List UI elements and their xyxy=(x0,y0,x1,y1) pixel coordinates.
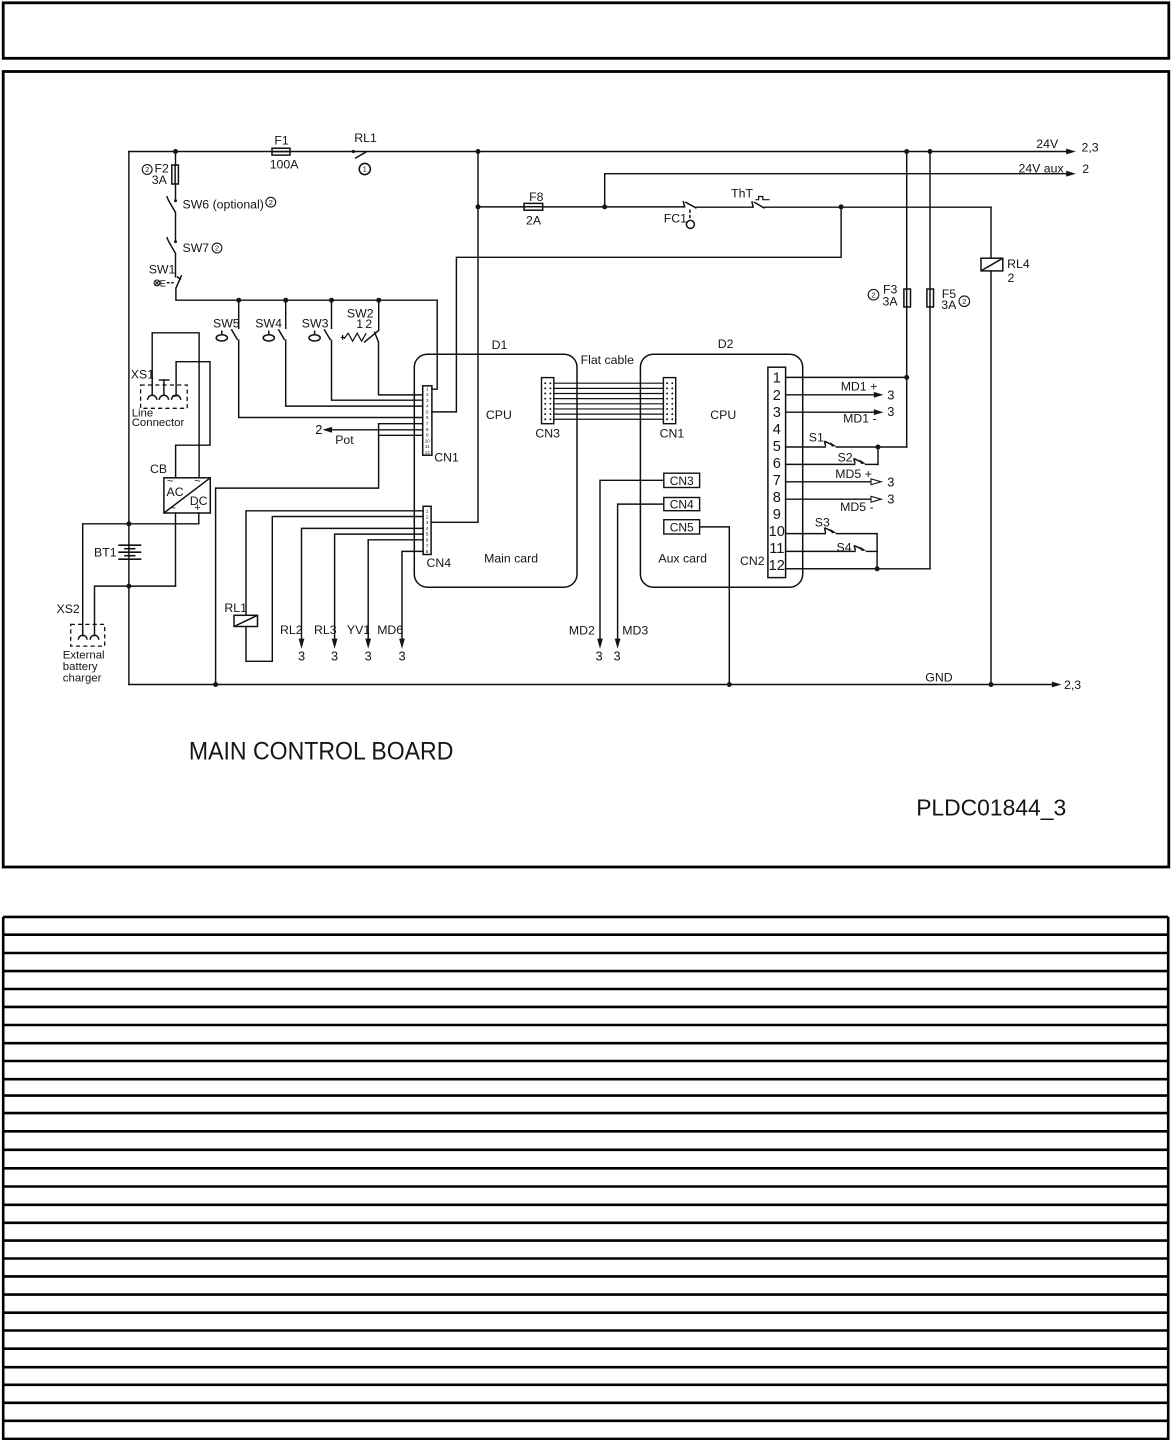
svg-text:11: 11 xyxy=(769,541,784,557)
svg-text:CN1: CN1 xyxy=(660,427,685,441)
svg-text:3: 3 xyxy=(887,492,894,507)
wire: branch down to D1 CN1 pin5 xyxy=(432,207,841,412)
wire: RL4 coil drop xyxy=(990,207,992,258)
wire: SW1 to switch bus xyxy=(176,288,437,300)
relay coil RL1 xyxy=(234,615,258,626)
svg-text:MAIN CONTROL BOARD: MAIN CONTROL BOARD xyxy=(189,739,454,766)
wire: +24V left rail xyxy=(128,152,130,685)
svg-text:ThT: ThT xyxy=(731,186,753,200)
connector CN5 of D2 xyxy=(664,520,700,534)
svg-text:D1: D1 xyxy=(492,338,508,352)
svg-text:MD3: MD3 xyxy=(622,624,648,638)
svg-text:YV1: YV1 xyxy=(347,623,370,637)
wire: bus drop to D1 CN1 pin1 xyxy=(432,300,437,389)
connector XS2 external battery charger xyxy=(71,624,105,646)
svg-text:Pot: Pot xyxy=(335,433,354,447)
wire: 24V top bus xyxy=(129,151,1067,153)
svg-text:3: 3 xyxy=(398,649,405,664)
svg-text:Flat cable: Flat cable xyxy=(581,353,634,367)
svg-text:10: 10 xyxy=(769,524,785,540)
svg-text:BT1: BT1 xyxy=(94,546,117,560)
svg-text:9: 9 xyxy=(426,433,429,438)
svg-text:5: 5 xyxy=(426,409,429,414)
svg-text:3: 3 xyxy=(365,649,372,664)
wire: CN4 pin4 to RL2 xyxy=(302,528,424,639)
svg-text:+: + xyxy=(194,502,200,514)
switch SW6 (optional) xyxy=(174,199,177,202)
connector CN1 of D1, 12 pins xyxy=(423,386,432,455)
svg-text:4: 4 xyxy=(426,526,429,532)
connector CN3 of D1 (flat cable header) xyxy=(542,378,554,424)
svg-text:CN2: CN2 xyxy=(740,554,765,568)
svg-text:5: 5 xyxy=(773,439,781,455)
svg-text:5: 5 xyxy=(426,532,429,538)
svg-text:1: 1 xyxy=(363,165,367,174)
svg-text:SW3: SW3 xyxy=(302,317,329,331)
wire: SW5 drop to CN1 pin6 xyxy=(238,300,240,328)
wire: RL1 coil return to CN4 pin2 xyxy=(246,517,423,662)
svg-text:E: E xyxy=(160,279,166,289)
svg-text:CPU: CPU xyxy=(710,408,736,422)
wire: pin7/9 to GND xyxy=(216,424,379,685)
wire: SW4 drop to CN1 pin4 xyxy=(285,300,287,328)
svg-text:~: ~ xyxy=(167,476,173,488)
label F2 3A xyxy=(142,165,152,175)
switch S2 xyxy=(854,458,855,463)
wire: CB plus to rail and XS2 pin1 xyxy=(83,513,199,636)
connector CN1 of D2 (flat cable header) xyxy=(663,378,675,424)
node: MD5+ open arrow xyxy=(871,479,881,485)
svg-text:3: 3 xyxy=(613,649,620,664)
svg-text:1: 1 xyxy=(773,371,781,387)
svg-text:D2: D2 xyxy=(718,337,734,351)
svg-text:2: 2 xyxy=(773,388,781,404)
node: MD2 arrow xyxy=(597,639,603,649)
svg-text:3A: 3A xyxy=(941,298,957,312)
switch SW5 xyxy=(216,335,227,341)
svg-text:2: 2 xyxy=(426,392,429,397)
svg-text:3: 3 xyxy=(887,387,894,402)
wire: Pot line to CN1 pin8 xyxy=(332,429,423,431)
svg-text:24V: 24V xyxy=(1036,137,1059,151)
wire: D2 CN4 to MD3 xyxy=(618,504,664,639)
svg-text:MD5 +: MD5 + xyxy=(835,467,872,481)
svg-text:RL1: RL1 xyxy=(354,131,377,145)
wire: CN2 pin11 S4 line xyxy=(786,550,855,552)
svg-text:2: 2 xyxy=(215,244,219,253)
svg-text:1: 1 xyxy=(426,509,429,515)
relay coil RL4 xyxy=(981,258,1003,271)
svg-text:2: 2 xyxy=(962,297,966,306)
svg-text:−: − xyxy=(170,502,176,514)
wire: CN2 pin8 MD5- xyxy=(786,498,872,500)
svg-text:9: 9 xyxy=(773,507,781,523)
svg-text:2,3: 2,3 xyxy=(1064,678,1081,692)
svg-text:SW5: SW5 xyxy=(213,317,240,331)
wire: CN2 pin1 to F3 xyxy=(786,376,907,378)
svg-text:2A: 2A xyxy=(526,213,542,227)
fuse F2 3A xyxy=(172,165,179,184)
svg-text:RL4: RL4 xyxy=(1007,257,1030,271)
wire: F5 branch from 24V xyxy=(929,152,931,290)
svg-text:2,3: 2,3 xyxy=(1082,141,1099,155)
wire: FC1 to ThT xyxy=(697,206,754,208)
svg-text:S2: S2 xyxy=(838,451,853,465)
svg-text:3: 3 xyxy=(773,405,781,421)
wire: CB minus to rail and XS2 pin2 xyxy=(175,513,177,586)
wire: CN2 pin10 S3 line xyxy=(786,533,826,535)
svg-text:Main card: Main card xyxy=(484,552,538,566)
svg-text:12: 12 xyxy=(425,450,431,455)
svg-text:charger: charger xyxy=(63,673,102,685)
switch SW2 xyxy=(344,333,366,341)
wire: ThT to RL4 drop xyxy=(765,206,992,208)
svg-text:2: 2 xyxy=(1082,162,1089,176)
svg-text:PLDC01844_3: PLDC01844_3 xyxy=(916,795,1066,821)
svg-text:6: 6 xyxy=(773,456,781,472)
wire: RL4 coil to GND xyxy=(990,271,992,685)
switch SW1 emergency stop xyxy=(154,280,160,286)
svg-text:2: 2 xyxy=(426,514,429,520)
wire: CN4 pin5 to RL3 xyxy=(335,534,424,639)
svg-text:SW7: SW7 xyxy=(183,241,210,255)
connector CN4 of D1, 8 pins xyxy=(423,506,431,554)
svg-text:6: 6 xyxy=(426,415,429,420)
connector XS1 line connector xyxy=(141,385,188,408)
wire: 24V aux line xyxy=(605,174,1067,207)
wire: S2 branch xyxy=(877,447,879,464)
wire: SW2 drop to CN1 pin2 xyxy=(378,300,380,330)
svg-text:3: 3 xyxy=(426,520,429,526)
node: RL3 arrow xyxy=(332,639,338,649)
connector CN3 of D2 xyxy=(664,473,700,487)
svg-text:MD1 -: MD1 - xyxy=(843,411,876,425)
svg-text:CN3: CN3 xyxy=(535,427,560,441)
wire: 24V drop to CN4 pin3 xyxy=(431,152,478,523)
svg-text:1: 1 xyxy=(426,386,429,391)
battery BT1 xyxy=(118,544,141,546)
svg-text:3A: 3A xyxy=(883,295,899,309)
node: MD1+ arrow xyxy=(874,392,884,398)
svg-text:CB: CB xyxy=(150,462,167,476)
relay contact RL1 xyxy=(352,150,355,153)
svg-text:RL2: RL2 xyxy=(280,623,303,637)
fuse F1 100A xyxy=(272,148,290,155)
svg-text:100A: 100A xyxy=(270,157,300,171)
svg-text:F1: F1 xyxy=(274,134,289,148)
wire: F2 branch xyxy=(175,152,177,166)
wire: flat cable (8 conductors) xyxy=(554,382,664,384)
svg-text:~: ~ xyxy=(194,476,200,488)
svg-text:Connector: Connector xyxy=(132,417,185,429)
svg-text:8: 8 xyxy=(426,549,429,555)
wire: CN4 pin6 to YV1 xyxy=(368,540,423,639)
svg-text:CN1: CN1 xyxy=(434,451,459,465)
svg-text:4: 4 xyxy=(773,422,781,438)
switch SW3 xyxy=(309,335,320,341)
svg-text:3A: 3A xyxy=(152,173,168,187)
wire: XS1 pin1 to CB AC input xyxy=(152,333,199,478)
wire: SW7 to SW1 xyxy=(175,253,177,277)
svg-text:2: 2 xyxy=(315,422,322,437)
wire: F8 feeder row xyxy=(478,206,524,208)
node: junction dots xyxy=(173,149,178,154)
svg-text:3: 3 xyxy=(887,404,894,419)
node: 24V arrow to sheets 2,3 xyxy=(1066,149,1076,155)
block D2 aux card xyxy=(640,354,802,587)
wire: CN1 pin9 xyxy=(379,434,423,436)
wire: CN1 pin7 xyxy=(379,423,423,425)
svg-text:7: 7 xyxy=(426,421,429,426)
svg-text:2: 2 xyxy=(269,198,273,207)
wire: XS1 pin2 stub xyxy=(163,380,165,394)
svg-text:External: External xyxy=(63,650,105,662)
wire: D2 CN3 to MD2 xyxy=(600,480,664,639)
svg-text:CPU: CPU xyxy=(486,408,512,422)
node: Pot arrow xyxy=(323,427,333,433)
wire: SW3 drop to CN1 pin3 xyxy=(331,300,333,328)
switch ThT thermal contact xyxy=(752,201,753,207)
switch S4 xyxy=(854,545,855,550)
svg-text:3: 3 xyxy=(887,475,894,490)
fuse F8 2A xyxy=(524,203,543,210)
svg-text:GND: GND xyxy=(925,670,952,684)
svg-text:FC1: FC1 xyxy=(664,211,687,225)
svg-text:MD6: MD6 xyxy=(377,623,403,637)
svg-text:CN3: CN3 xyxy=(670,474,694,488)
svg-text:RL1: RL1 xyxy=(224,601,247,615)
svg-text:24V aux: 24V aux xyxy=(1019,161,1065,175)
wire: CN4 pin8 to MD6 xyxy=(402,551,423,639)
node: YV1 arrow xyxy=(365,639,371,649)
fuse F5 3A xyxy=(927,289,934,307)
fuse F3 3A xyxy=(904,289,911,307)
wire: D2 CN5 to GND xyxy=(700,527,730,685)
svg-text:S1: S1 xyxy=(809,430,824,444)
svg-text:4: 4 xyxy=(426,404,429,409)
node: RL1 contact id circle 1 xyxy=(359,163,370,174)
svg-text:battery: battery xyxy=(63,661,98,673)
switch SW7 xyxy=(174,240,177,243)
svg-text:XS2: XS2 xyxy=(57,602,80,616)
wire: F3 branch from 24V xyxy=(906,152,908,290)
wire: SW6 to SW7 xyxy=(175,212,177,241)
node: MD5- open arrow xyxy=(871,496,881,502)
switch S3 xyxy=(824,527,825,532)
node: 24V aux arrow to sheet 2 xyxy=(1066,171,1076,177)
svg-text:2: 2 xyxy=(145,165,149,174)
switch SW4 xyxy=(263,335,274,341)
svg-text:CN5: CN5 xyxy=(670,520,694,534)
svg-text:RL3: RL3 xyxy=(314,623,337,637)
svg-text:SW4: SW4 xyxy=(255,317,282,331)
svg-text:12: 12 xyxy=(769,558,785,574)
wire: F5 to CN2 pin12 xyxy=(786,568,930,570)
connector CN2 of D2, 12 pins xyxy=(768,367,786,577)
svg-text:CN4: CN4 xyxy=(670,497,694,511)
label F3 3A xyxy=(868,289,879,300)
svg-text:1: 1 xyxy=(356,317,363,331)
wire: XS1 pin3 to CB AC input xyxy=(176,362,210,478)
node: GND arrow to sheets 2,3 xyxy=(1052,682,1062,688)
svg-text:3: 3 xyxy=(426,398,429,403)
switch S1 xyxy=(824,441,825,446)
svg-text:6: 6 xyxy=(426,538,429,544)
svg-text:2: 2 xyxy=(871,290,875,299)
svg-text:7: 7 xyxy=(426,543,429,549)
svg-text:7: 7 xyxy=(773,473,781,489)
block D1 main card xyxy=(414,354,577,587)
node: MD6 arrow xyxy=(399,639,405,649)
svg-text:SW6 (optional): SW6 (optional) xyxy=(183,198,264,212)
svg-text:F8: F8 xyxy=(529,190,544,204)
wire: CN2 pin3 MD1- xyxy=(786,411,875,413)
connector CN4 of D2 xyxy=(664,498,700,511)
svg-text:2: 2 xyxy=(1008,271,1015,285)
converter CB AC/DC xyxy=(164,478,210,513)
svg-text:3: 3 xyxy=(331,649,338,664)
svg-text:8: 8 xyxy=(426,427,429,432)
wire: CN2 pin6 S2 line xyxy=(786,463,855,465)
wire: CN2 pin7 MD5+ xyxy=(786,481,872,483)
svg-text:S4: S4 xyxy=(837,540,852,554)
wire: CN2 pin2 MD1+ xyxy=(786,394,875,396)
wire: CN4 pin1 to RL1 coil xyxy=(246,511,423,616)
node: RL2 arrow xyxy=(299,639,305,649)
node: MD1- arrow xyxy=(874,409,884,415)
svg-text:MD5 -: MD5 - xyxy=(840,500,873,514)
node: MD3 arrow xyxy=(615,639,621,649)
svg-text:MD1 +: MD1 + xyxy=(841,380,878,394)
svg-text:SW1: SW1 xyxy=(149,262,176,276)
svg-text:MD2: MD2 xyxy=(569,624,595,638)
switch FC1 foot contact xyxy=(683,201,684,207)
wire: GND bottom bus xyxy=(129,684,1053,686)
svg-text:CN4: CN4 xyxy=(427,556,452,570)
svg-text:2: 2 xyxy=(365,317,372,331)
svg-text:S3: S3 xyxy=(815,515,830,529)
svg-text:10: 10 xyxy=(425,438,431,443)
svg-text:3: 3 xyxy=(595,649,602,664)
svg-text:3: 3 xyxy=(298,649,305,664)
wire: CN2 pin5 S1 line xyxy=(786,446,826,448)
svg-text:11: 11 xyxy=(425,444,430,449)
svg-text:XS1: XS1 xyxy=(131,368,154,382)
svg-text:8: 8 xyxy=(773,490,781,506)
wire: CN2 pin12 xyxy=(786,568,878,570)
svg-text:Aux card: Aux card xyxy=(658,552,707,566)
